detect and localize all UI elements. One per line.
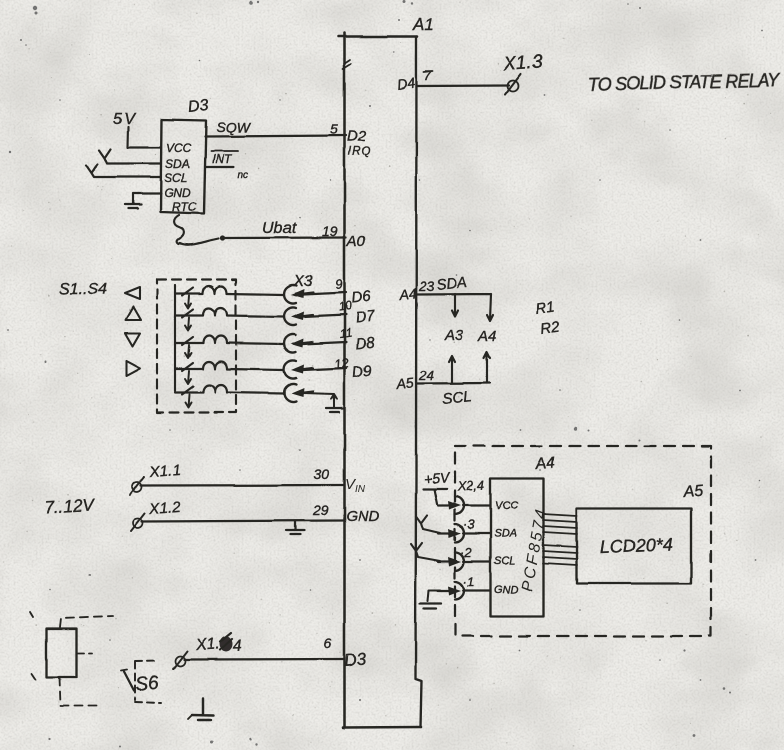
svg-text:11: 11 [338,325,352,341]
svg-text:nc: nc [238,170,249,181]
svg-text:INT: INT [212,152,233,166]
svg-text:D6: D6 [351,288,373,307]
svg-text:RTC: RTC [172,200,197,214]
svg-text:24: 24 [418,368,434,383]
svg-text:X1.2: X1.2 [148,499,182,518]
svg-text:D4: D4 [396,75,416,93]
svg-text:SDA: SDA [436,274,468,294]
svg-text:+5V: +5V [423,469,451,487]
svg-text:SQW: SQW [216,119,251,135]
svg-text:X1.1: X1.1 [148,462,181,481]
svg-text:A0: A0 [346,233,366,250]
svg-text:23: 23 [418,279,435,294]
svg-text:10: 10 [337,298,352,314]
svg-text:SCL: SCL [164,171,187,185]
svg-text:A4: A4 [398,285,418,303]
svg-text:30: 30 [314,466,330,482]
svg-text:X1.: X1. [194,636,220,654]
svg-text:5: 5 [330,121,338,137]
svg-text:D7: D7 [355,308,377,327]
svg-text:D2: D2 [347,128,367,145]
svg-text:S6: S6 [134,673,160,696]
svg-text:·1: ·1 [463,574,475,589]
svg-text:A3: A3 [444,327,464,344]
svg-text:A4: A4 [477,328,496,345]
svg-text:7: 7 [424,67,433,83]
svg-text:5V: 5V [113,111,137,128]
svg-text:IRQ: IRQ [348,146,371,158]
svg-text:X2,4: X2,4 [456,478,484,494]
svg-text:Ubat: Ubat [262,220,296,237]
svg-text:VCC: VCC [166,141,192,155]
svg-text:·3: ·3 [463,517,475,532]
svg-text:GND: GND [346,508,380,525]
svg-text:A5: A5 [682,483,704,501]
svg-text:7..12V: 7..12V [44,495,96,517]
svg-text:D3: D3 [188,97,210,116]
svg-text:SDA: SDA [494,528,517,540]
svg-text:LCD20*4: LCD20*4 [599,534,673,557]
svg-text:R2: R2 [539,318,561,338]
svg-text:SCL: SCL [442,388,473,408]
svg-text:A4: A4 [534,455,556,473]
svg-text:GND: GND [164,186,191,200]
svg-text:6: 6 [324,635,332,651]
svg-text:S1..S4: S1..S4 [59,281,107,298]
svg-text:·2: ·2 [460,545,472,560]
svg-text:VCC: VCC [495,500,518,512]
svg-text:GND: GND [494,584,519,596]
svg-text:SDA: SDA [165,157,190,171]
svg-text:D3: D3 [343,649,367,670]
svg-text:D9: D9 [352,362,374,381]
svg-text:A5: A5 [395,374,415,392]
svg-text:X3: X3 [292,273,313,290]
svg-text:4: 4 [232,638,242,655]
svg-text:D8: D8 [355,334,377,353]
svg-text:A1: A1 [412,15,434,34]
svg-text:12: 12 [333,355,350,372]
svg-text:R1: R1 [534,298,555,318]
svg-text:X1.3: X1.3 [502,51,544,75]
svg-text:SCL: SCL [494,555,515,567]
svg-text:29: 29 [312,502,329,518]
svg-text:19: 19 [322,223,338,239]
